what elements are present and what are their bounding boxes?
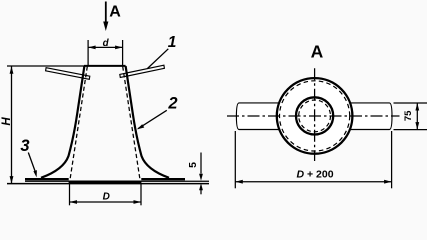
svg-text:D: D bbox=[103, 192, 110, 203]
svg-text:3: 3 bbox=[20, 137, 29, 155]
svg-text:A: A bbox=[109, 4, 121, 21]
svg-text:D + 200: D + 200 bbox=[296, 169, 333, 181]
svg-text:H: H bbox=[1, 117, 13, 126]
svg-text:1: 1 bbox=[168, 34, 177, 51]
svg-text:75: 75 bbox=[403, 110, 414, 121]
svg-text:A: A bbox=[311, 41, 324, 61]
svg-text:d: d bbox=[103, 38, 110, 49]
svg-text:5: 5 bbox=[187, 162, 199, 168]
svg-text:2: 2 bbox=[167, 95, 177, 113]
